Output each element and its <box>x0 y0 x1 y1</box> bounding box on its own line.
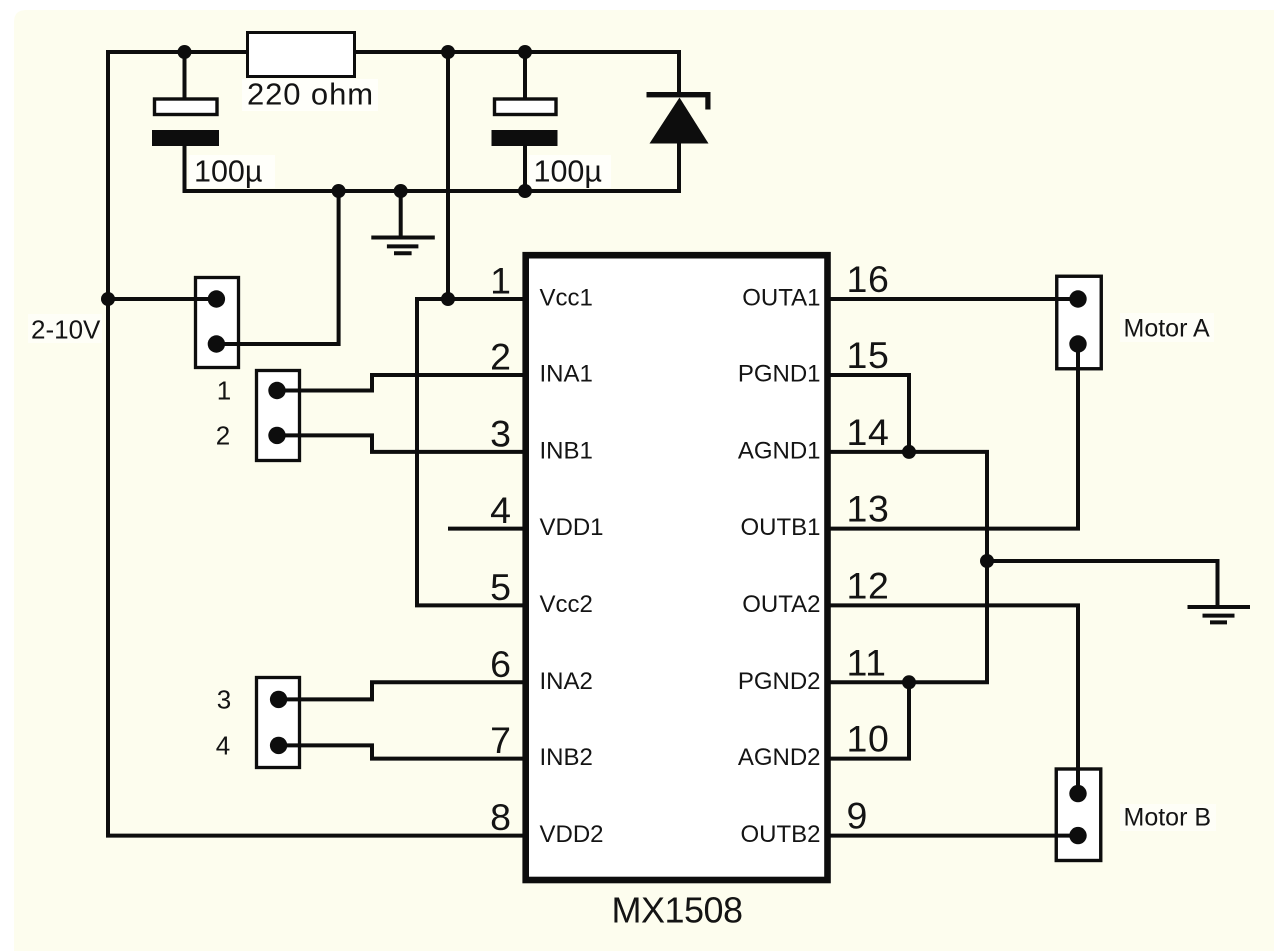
label background: 100u left <box>189 155 275 188</box>
svg-text:10: 10 <box>847 718 890 760</box>
junction: gnd rail / J1 branch <box>332 184 346 198</box>
svg-text:OUTA2: OUTA2 <box>742 591 820 618</box>
svg-text:OUTA1: OUTA1 <box>742 285 820 312</box>
svg-text:VDD2: VDD2 <box>540 821 604 848</box>
svg-text:3: 3 <box>490 412 511 454</box>
svg-text:INA2: INA2 <box>540 668 593 695</box>
svg-text:Motor A: Motor A <box>1124 315 1210 343</box>
wire: J2 pin1 to INA1 pin 2 <box>277 375 524 391</box>
junction: rail / Vcc1 drop <box>441 45 455 59</box>
label background: 220 ohm <box>242 79 378 111</box>
node 2-10V junction <box>101 292 115 306</box>
junction: rail / C2 <box>518 45 532 59</box>
svg-text:11: 11 <box>847 641 887 683</box>
wire: bottom run to VDD2 pin 8 <box>106 834 524 838</box>
wire: ground rail to J1 pin2 <box>216 189 338 344</box>
junction: Vcc1 node <box>441 292 455 306</box>
wire: C1 top lead <box>183 50 187 100</box>
wire: top supply rail <box>108 50 681 54</box>
svg-text:Motor B: Motor B <box>1124 804 1212 832</box>
svg-text:Vcc2: Vcc2 <box>540 591 593 618</box>
junction: AGND net to ground <box>980 554 994 568</box>
Motor B pin 1 contact <box>1069 785 1086 802</box>
wire: PGND2 pin 11 run <box>827 680 989 684</box>
svg-text:OUTB2: OUTB2 <box>740 821 820 848</box>
capacitor C2 100u top plate <box>495 99 557 115</box>
J2 pin 2 contact <box>268 427 285 444</box>
wire: C1 bottom lead <box>183 144 187 193</box>
connector J3 (inputs 3,4) <box>257 678 300 768</box>
svg-text:13: 13 <box>847 488 890 530</box>
ground symbol (left, 3 bars) <box>371 238 435 254</box>
svg-text:INB2: INB2 <box>540 744 593 771</box>
svg-text:16: 16 <box>847 258 890 300</box>
ground symbol (right, 3 bars) <box>1188 607 1251 622</box>
J3 pin 3 contact <box>270 691 287 708</box>
svg-text:2: 2 <box>216 420 230 450</box>
diode D1 anode triangle <box>650 98 709 144</box>
capacitor C1 100u top plate <box>155 99 218 115</box>
junction: gnd rail / ground stem <box>394 184 408 198</box>
svg-text:AGND1: AGND1 <box>738 437 821 464</box>
Motor A pin 2 contact <box>1069 335 1086 352</box>
wire: ground branch (right) <box>987 561 1218 606</box>
svg-text:2-10V: 2-10V <box>31 315 101 345</box>
wire: J3 pin4 to INB2 pin 7 <box>279 745 524 758</box>
svg-text:INA1: INA1 <box>540 361 593 388</box>
svg-text:220 ohm: 220 ohm <box>247 77 374 112</box>
svg-text:PGND2: PGND2 <box>738 668 821 695</box>
connector Motor A <box>1057 276 1102 369</box>
svg-text:8: 8 <box>490 796 511 838</box>
wire: VDD1 pin 4 stub <box>448 527 524 531</box>
wire: C2 top lead <box>523 50 527 100</box>
diode D1 cathode hook <box>705 96 710 110</box>
J2 pin 1 contact <box>268 382 285 399</box>
svg-text:14: 14 <box>847 411 890 453</box>
svg-text:12: 12 <box>847 564 890 606</box>
label background: 100u right <box>529 155 611 188</box>
wire: J3 pin3 to INA2 pin 6 <box>279 682 524 699</box>
wire: OUTB1 pin 13 to Motor A <box>827 342 1078 529</box>
wire: Vcc2 branch to pin 5 <box>417 297 524 605</box>
wire: left supply drop <box>106 50 110 836</box>
svg-text:6: 6 <box>490 643 511 685</box>
junction: gnd rail / C2 <box>518 184 532 198</box>
wire: AGND2 pin 10 riser <box>827 680 909 758</box>
svg-text:VDD1: VDD1 <box>540 514 604 541</box>
wire: PGND1 pin 15 riser <box>827 375 909 454</box>
wire: diode bottom lead <box>677 141 681 193</box>
ground symbol stem (left) <box>399 189 403 237</box>
svg-text:Vcc1: Vcc1 <box>540 285 593 312</box>
wire: C2 bottom lead <box>523 144 527 193</box>
J3 pin 4 contact <box>270 737 287 754</box>
op-amp/driver IC U1 MX1508 body <box>526 255 828 880</box>
svg-text:OUTB1: OUTB1 <box>740 514 820 541</box>
connector J2 (inputs 1,2) <box>257 371 300 461</box>
svg-text:7: 7 <box>490 719 511 761</box>
junction: pin11/pin10 <box>902 675 916 689</box>
Motor B pin 2 contact <box>1069 827 1086 844</box>
capacitor C1 100u bottom plate <box>152 130 219 146</box>
svg-text:1: 1 <box>490 260 511 302</box>
wire: OUTB2 pin 9 to Motor B <box>827 834 1078 838</box>
svg-text:INB1: INB1 <box>540 437 593 464</box>
connector J1 (power 2-10V) <box>196 278 239 368</box>
junction: pin15/pin14 <box>902 445 916 459</box>
connector Motor B <box>1056 769 1101 861</box>
svg-text:100µ: 100µ <box>534 155 602 189</box>
wire: Vcc1 drop from rail <box>446 50 450 299</box>
diode D1 cathode bar <box>647 92 711 97</box>
wire: OUTA2 pin 12 to Motor B <box>827 605 1078 793</box>
wire: AGND1 pin 14 run <box>827 452 987 682</box>
junction: rail / C1 <box>178 45 192 59</box>
J1 pin 2 contact <box>208 335 225 352</box>
wire: J2 pin2 to INB1 pin 3 <box>277 435 524 452</box>
svg-text:AGND2: AGND2 <box>738 744 821 771</box>
Motor A pin 1 contact <box>1069 290 1086 307</box>
resistor R1 220 ohm <box>248 33 355 77</box>
svg-text:3: 3 <box>217 684 231 714</box>
wire: pin 1 Vcc1 <box>417 297 524 301</box>
wire: ground rail <box>185 189 682 193</box>
svg-text:4: 4 <box>216 730 230 760</box>
svg-text:PGND1: PGND1 <box>738 361 821 388</box>
wire: supply node to J1 pin1 <box>108 297 216 301</box>
svg-text:2: 2 <box>490 336 511 378</box>
J1 pin 1 contact <box>208 290 225 307</box>
svg-text:4: 4 <box>490 489 511 531</box>
svg-text:100µ: 100µ <box>194 155 262 189</box>
wire: OUTA1 pin 16 to Motor A <box>827 297 1078 301</box>
svg-text:15: 15 <box>847 334 890 376</box>
capacitor C2 100u bottom plate <box>492 130 558 146</box>
svg-text:MX1508: MX1508 <box>611 890 742 931</box>
wire: diode top lead <box>677 50 681 94</box>
label background: Motor B <box>1120 804 1216 831</box>
svg-text:9: 9 <box>847 795 868 837</box>
svg-text:5: 5 <box>490 566 511 608</box>
label background: 2-10V <box>28 314 102 343</box>
label background: Motor A <box>1120 313 1214 342</box>
svg-text:1: 1 <box>217 376 231 406</box>
